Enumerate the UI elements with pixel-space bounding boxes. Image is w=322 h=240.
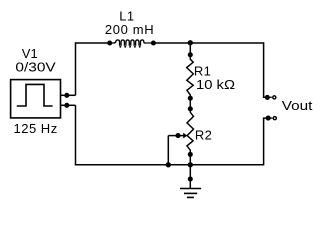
terminal Vout minus: pin dot	[266, 116, 271, 121]
terminal Vout plus: open circle	[273, 96, 276, 99]
inductor L1	[110, 40, 154, 46]
wiper arrow of R2	[168, 135, 184, 137]
wire: R1 bottom pin to R2 top pin	[189, 98, 191, 109]
junction node A: top rail and R1	[188, 40, 193, 45]
pin dot R2 wiper	[175, 133, 180, 138]
pin dot V1 minus	[64, 103, 69, 108]
terminal Vout plus: stub to open circle	[267, 96, 272, 98]
wire: wiper down to bottom rail	[167, 136, 169, 165]
wire: left vertical from top rail to V1 plus pin	[75, 42, 77, 95]
wire: top rail right segment (L1 to node A and right rail)	[153, 42, 264, 44]
pin dot R1 bottom	[188, 96, 193, 101]
svg-text:Vout: Vout	[282, 98, 313, 113]
wire: top rail left segment (V1 to L1)	[76, 42, 112, 44]
junction node: R2 / ground on bottom rail	[188, 162, 193, 167]
terminal Vout minus: open circle	[273, 117, 276, 120]
wire: bottom rail	[75, 164, 264, 166]
svg-text:200 mH: 200 mH	[105, 22, 154, 37]
pin dot R1 top	[188, 52, 193, 57]
junction node: wiper wire on bottom rail	[166, 162, 171, 167]
pin dot L1 left	[107, 40, 112, 45]
terminal Vout minus: stub to open circle	[268, 117, 273, 119]
pin dot V1 plus	[64, 93, 69, 98]
wire: right rail from top rail down to Vout plus terminal	[264, 42, 268, 97]
terminal Vout plus: pin dot	[265, 95, 270, 100]
pin dot R2 top	[188, 106, 193, 111]
svg-text:10 kΩ: 10 kΩ	[196, 77, 235, 92]
wire: from Vout minus terminal down to bottom rail	[264, 118, 268, 165]
pin dot R2 bottom	[188, 152, 193, 157]
wire: R2 bottom pin to bottom rail	[189, 154, 191, 164]
pin dot ground	[188, 176, 193, 181]
potentiometer R2	[187, 109, 194, 155]
pin dot L1 right	[151, 40, 156, 45]
resistor R1 10 kOhm	[187, 55, 194, 98]
svg-text:125 Hz: 125 Hz	[14, 121, 58, 136]
ground symbol	[180, 189, 201, 198]
source V1 (pulse voltage source box)	[11, 80, 76, 118]
wire: bottom rail down to ground	[189, 165, 191, 189]
svg-text:0/30V: 0/30V	[15, 60, 56, 75]
wire: node A down to R1 top pin	[189, 43, 191, 55]
svg-text:R2: R2	[195, 128, 212, 143]
wire: left vertical from V1 minus pin down to bottom rail	[75, 105, 77, 165]
